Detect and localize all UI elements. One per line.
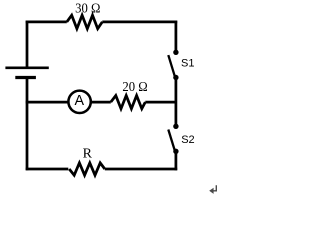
- svg-text:S1: S1: [181, 58, 194, 70]
- wire: right vertical lower (S2 to bottom corner): [175, 151, 178, 170]
- wire: bottom left segment: [26, 168, 69, 171]
- wire: middle branch center (ammeter to 20Ω): [91, 101, 111, 104]
- ammeter A1: [68, 91, 90, 113]
- resistor R2 20Ω zigzag: [111, 96, 145, 109]
- wire: right vertical upper (to S1): [175, 21, 178, 53]
- wire: top right segment: [102, 21, 177, 24]
- battery B1: [5, 68, 48, 78]
- resistor R zigzag: [69, 163, 105, 175]
- svg-text:A: A: [75, 93, 85, 109]
- svg-text:20 Ω: 20 Ω: [122, 80, 147, 95]
- switch S2: [168, 124, 178, 154]
- wire: top left segment: [26, 21, 67, 24]
- wire: left vertical lower (battery to bottom corner): [26, 78, 29, 171]
- svg-text:30 Ω: 30 Ω: [75, 1, 100, 16]
- resistor R1 30Ω zigzag: [67, 15, 102, 29]
- paragraph return mark: [209, 185, 216, 194]
- wire: left vertical upper (top corner to battery): [26, 21, 29, 67]
- wire: middle branch left (to ammeter): [26, 101, 69, 104]
- switch S1: [168, 50, 178, 81]
- svg-text:R: R: [83, 147, 93, 162]
- svg-text:S2: S2: [181, 134, 194, 146]
- wire: middle branch right (20Ω to right vertical): [145, 101, 176, 104]
- wire: bottom right segment: [105, 168, 177, 171]
- wire: right vertical between S1 and S2: [175, 78, 178, 127]
